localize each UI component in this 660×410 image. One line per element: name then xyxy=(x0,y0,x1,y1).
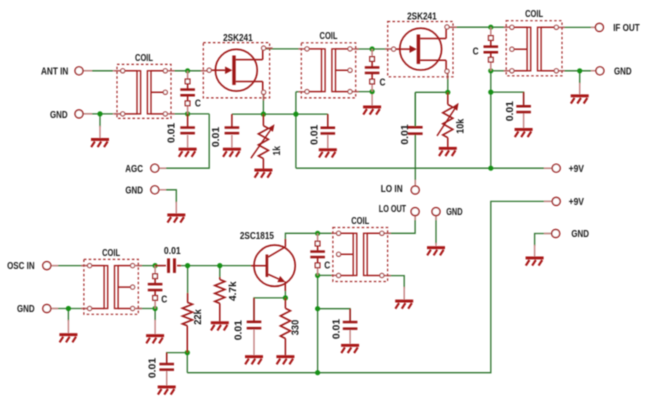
svg-text:C: C xyxy=(324,259,330,271)
svg-text:0.01: 0.01 xyxy=(147,358,159,378)
svg-text:0.01: 0.01 xyxy=(309,125,321,145)
svg-text:ANT IN: ANT IN xyxy=(41,65,68,77)
svg-text:LO IN: LO IN xyxy=(381,183,403,195)
svg-text:COIL: COIL xyxy=(320,30,338,42)
svg-text:C: C xyxy=(473,46,479,58)
svg-text:GND: GND xyxy=(50,109,68,121)
svg-text:COIL: COIL xyxy=(135,52,153,64)
svg-text:IF OUT: IF OUT xyxy=(613,22,640,34)
svg-text:+9V: +9V xyxy=(569,163,584,175)
svg-text:0.01: 0.01 xyxy=(504,101,516,121)
svg-text:1k: 1k xyxy=(271,146,283,156)
svg-text:0.01: 0.01 xyxy=(210,127,222,147)
svg-text:2SC1815: 2SC1815 xyxy=(240,230,274,242)
svg-text:GND: GND xyxy=(571,228,589,240)
svg-text:10k: 10k xyxy=(455,119,467,134)
svg-text:COIL: COIL xyxy=(525,8,543,20)
svg-text:OSC IN: OSC IN xyxy=(7,260,35,272)
svg-text:COIL: COIL xyxy=(351,215,369,227)
svg-text:2SK241: 2SK241 xyxy=(407,11,437,23)
svg-text:4.7k: 4.7k xyxy=(227,281,239,301)
svg-text:+9V: +9V xyxy=(569,196,584,208)
svg-text:AGC: AGC xyxy=(125,163,143,175)
svg-text:0.01: 0.01 xyxy=(233,320,245,340)
svg-text:LO OUT: LO OUT xyxy=(379,203,407,215)
svg-text:GND: GND xyxy=(614,65,632,77)
svg-text:0.01: 0.01 xyxy=(164,245,181,257)
svg-text:C: C xyxy=(195,97,201,109)
svg-text:330: 330 xyxy=(289,320,301,336)
svg-text:2SK241: 2SK241 xyxy=(223,32,253,44)
svg-text:COIL: COIL xyxy=(102,247,120,259)
svg-text:C: C xyxy=(161,294,167,306)
svg-text:0.01: 0.01 xyxy=(399,124,411,144)
svg-text:GND: GND xyxy=(17,303,35,315)
svg-text:GND: GND xyxy=(125,184,143,196)
svg-text:0.01: 0.01 xyxy=(330,319,342,339)
svg-text:0.01: 0.01 xyxy=(165,123,177,143)
svg-text:C: C xyxy=(380,77,386,89)
svg-text:GND: GND xyxy=(446,206,463,218)
svg-text:22k: 22k xyxy=(192,309,204,325)
